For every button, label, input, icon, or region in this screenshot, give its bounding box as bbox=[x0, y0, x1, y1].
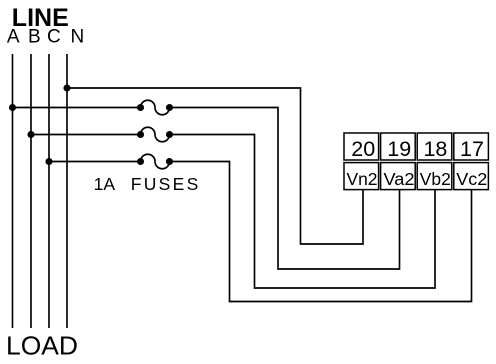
svg-text:1A: 1A bbox=[94, 174, 116, 194]
svg-text:20: 20 bbox=[351, 137, 375, 161]
svg-text:C: C bbox=[47, 27, 61, 48]
svg-text:18: 18 bbox=[423, 137, 447, 161]
svg-text:B: B bbox=[28, 27, 41, 48]
svg-text:Vn2: Vn2 bbox=[347, 169, 378, 189]
svg-text:LOAD: LOAD bbox=[6, 330, 78, 360]
svg-text:17: 17 bbox=[460, 137, 484, 161]
svg-text:Vc2: Vc2 bbox=[456, 169, 487, 189]
svg-text:Va2: Va2 bbox=[384, 169, 415, 189]
svg-text:N: N bbox=[71, 27, 85, 48]
svg-text:FUSES: FUSES bbox=[131, 174, 199, 194]
svg-text:Vb2: Vb2 bbox=[420, 169, 451, 189]
svg-text:19: 19 bbox=[387, 137, 411, 161]
svg-text:A: A bbox=[7, 27, 20, 48]
